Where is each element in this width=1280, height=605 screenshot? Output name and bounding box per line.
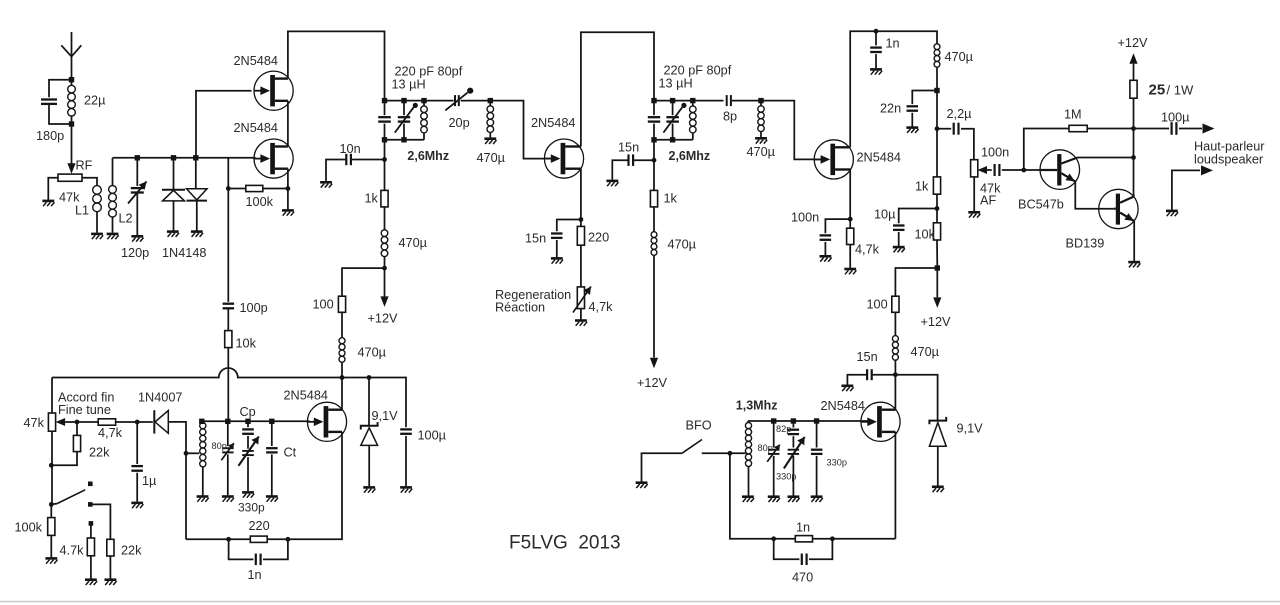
- resistor 1k stage3: [933, 177, 940, 194]
- label 220 stage2: [588, 231, 609, 245]
- svg-text:9,1V: 9,1V: [372, 409, 399, 423]
- trimmer 80p vfo: [221, 421, 234, 495]
- inductor BFO tank coil: [745, 421, 751, 496]
- svg-text:1n: 1n: [886, 37, 900, 51]
- label 1N4148: [162, 246, 206, 260]
- label 2,2u: [947, 107, 973, 121]
- wire Q9 source down: [894, 432, 896, 539]
- ground D2: [191, 232, 203, 237]
- label 15n stage2: [525, 232, 546, 246]
- wire bfo loop right: [813, 538, 896, 540]
- svg-text:+12V: +12V: [368, 312, 399, 326]
- svg-text:100n: 100n: [791, 211, 819, 225]
- svg-text:10n: 10n: [340, 142, 361, 156]
- wire Q7 collector join: [1133, 195, 1136, 197]
- capacitor 22n: [907, 91, 938, 127]
- wire antenna down to RF pot wiper: [71, 124, 73, 165]
- wire AF pot to ground: [973, 177, 975, 211]
- label 330p vfo: [238, 501, 265, 515]
- capacitor 100u output: [1134, 122, 1203, 135]
- node stage1 supply: [382, 266, 387, 271]
- label Ct: [284, 446, 297, 460]
- node BFO tap: [728, 451, 733, 456]
- svg-text:1k: 1k: [915, 180, 929, 194]
- node tank1 c: [421, 98, 426, 103]
- capacitor Ct: [266, 421, 278, 495]
- label +12V stage2: [637, 376, 668, 390]
- svg-text:20p: 20p: [449, 116, 470, 130]
- inductor 470u stage2 drain: [651, 232, 657, 358]
- svg-text:2,6Mhz: 2,6Mhz: [669, 149, 711, 163]
- resistor 22k a: [51, 422, 80, 465]
- wire 180p bottom: [49, 104, 72, 124]
- transistor Q3 2N5484: [544, 139, 583, 178]
- RF pot wiper arrow: [67, 163, 75, 174]
- label 100u vfo: [418, 429, 447, 443]
- label 220 pF 80pf t2: [664, 64, 732, 78]
- node vfo Cp: [245, 419, 250, 424]
- node tank1 b: [401, 98, 406, 103]
- wire BFO tank top: [748, 420, 872, 422]
- label 80p vfo: [212, 441, 227, 451]
- +12V arrow stage2: [650, 358, 658, 369]
- wire fine tune rail: [52, 368, 342, 378]
- ground 80p vfo: [222, 497, 234, 502]
- variable capacitor 120p: [128, 158, 147, 235]
- svg-text:1M: 1M: [1064, 108, 1082, 122]
- svg-text:Cp: Cp: [240, 405, 256, 419]
- node Q2 source 100k: [286, 186, 291, 191]
- svg-text:Réaction: Réaction: [495, 301, 545, 315]
- wire Q4 drain up to top rail: [850, 31, 937, 147]
- wire +12V to 25 resistor: [1133, 64, 1135, 81]
- svg-text:10k: 10k: [236, 337, 257, 351]
- wire supply column: [936, 91, 938, 177]
- label +12V stage1: [368, 312, 399, 326]
- capacitor tank1 fixed: [378, 101, 391, 140]
- wire +12V stub stage3: [936, 268, 938, 297]
- inductor 470u stage1 drain: [381, 230, 388, 268]
- wire gate bus: [113, 157, 256, 159]
- label 220 pF 80pf t1: [395, 65, 463, 79]
- label BFO: [686, 419, 712, 433]
- transistor Q9 2N5484 bfo: [861, 402, 900, 441]
- inductor L1: [93, 186, 102, 233]
- node choke3 top: [758, 98, 763, 103]
- label 22n: [880, 102, 901, 116]
- svg-text:470µ: 470µ: [399, 236, 428, 250]
- svg-text:AF: AF: [980, 194, 996, 208]
- label 13 uH t2: [659, 77, 693, 91]
- wire antenna to 180p branch: [49, 80, 72, 98]
- capacitor 330p bfo: [811, 421, 823, 496]
- wire vfo loop bottom: [186, 538, 250, 540]
- capacitor Cp series: [239, 421, 259, 491]
- antenna ANT1: [61, 32, 81, 80]
- label 470u choke3: [747, 145, 776, 159]
- svg-text:Fine tune: Fine tune: [58, 403, 111, 417]
- svg-text:47k: 47k: [24, 416, 45, 430]
- svg-text:100k: 100k: [246, 195, 274, 209]
- wire supply left to osc: [342, 268, 385, 296]
- label 10u: [874, 208, 896, 222]
- node vfo 80p: [225, 419, 230, 424]
- label 100k: [246, 195, 274, 209]
- label BD139: [1066, 237, 1105, 251]
- label 2,6Mhz t1: [407, 149, 449, 163]
- node bfo loop a: [771, 536, 776, 541]
- label 8p: [723, 110, 737, 124]
- transistor Q4 2N5484: [814, 140, 853, 179]
- node tank2 a: [651, 98, 656, 103]
- svg-text:10µ: 10µ: [874, 208, 896, 222]
- node vfo loop a: [226, 537, 231, 542]
- wire Q2 source down to ground: [287, 169, 289, 210]
- ground D1: [167, 232, 179, 237]
- capacitor 100p: [223, 302, 235, 331]
- svg-text:8p: 8p: [723, 110, 737, 124]
- svg-text:2N5484: 2N5484: [234, 121, 278, 135]
- label 470u choke2: [477, 151, 506, 165]
- svg-text:15n: 15n: [525, 232, 546, 246]
- wire Q1 drain up/right to tank1: [288, 31, 385, 100]
- transistor Q7 BD139: [1099, 189, 1138, 228]
- ground 100u vfo: [400, 487, 412, 492]
- svg-text:1n: 1n: [248, 568, 262, 582]
- svg-text:330p: 330p: [776, 472, 796, 482]
- svg-text:Haut-parleur: Haut-parleur: [1194, 140, 1265, 154]
- wire Q8 drain up: [341, 378, 343, 410]
- svg-text:13 µH: 13 µH: [392, 78, 426, 92]
- node vfo Ct: [269, 419, 274, 424]
- svg-text:2,6Mhz: 2,6Mhz: [407, 149, 449, 163]
- capacitor 15n bfo: [847, 369, 895, 385]
- svg-text:2N5484: 2N5484: [531, 116, 575, 130]
- node bus D2: [193, 155, 198, 160]
- label 470u choke4: [945, 50, 974, 64]
- transistor Q6 BC547b: [1040, 150, 1080, 190]
- label Cp: [240, 405, 256, 419]
- trimmer 80p bfo: [767, 421, 780, 496]
- node 1n tap: [874, 29, 879, 34]
- resistor 4,7k fine tune: [77, 419, 137, 425]
- node tank2 e: [670, 137, 675, 142]
- node zener1 tap: [367, 375, 372, 380]
- node tank2 15n tap: [652, 158, 657, 163]
- resistor 10k vfo: [225, 331, 232, 422]
- node base junction: [1021, 168, 1026, 173]
- svg-text:10k: 10k: [915, 228, 936, 242]
- ground Cp: [242, 492, 254, 497]
- svg-text:4,7k: 4,7k: [855, 243, 880, 257]
- svg-text:100k: 100k: [15, 521, 43, 535]
- wire tank2 bottom line: [654, 139, 693, 141]
- node bfo 82p: [791, 418, 796, 423]
- svg-text:1µ: 1µ: [142, 474, 157, 488]
- resistor 220 stage2: [577, 220, 584, 287]
- svg-text:BC547b: BC547b: [1018, 198, 1064, 212]
- svg-text:1n: 1n: [796, 521, 810, 535]
- wire vfo loop bottom right: [267, 432, 342, 539]
- node vfo coil top: [199, 419, 204, 424]
- svg-text:2N5484: 2N5484: [821, 399, 865, 413]
- label 4.7k: [60, 544, 85, 558]
- ground RF pot: [42, 201, 54, 206]
- speaker return arrow: [1172, 165, 1213, 209]
- wire 1M left leg: [1024, 129, 1069, 171]
- svg-text:15n: 15n: [857, 350, 878, 364]
- svg-text:80p: 80p: [758, 443, 773, 453]
- ground 82p bfo: [788, 497, 800, 502]
- label 47k fine tune: [24, 416, 45, 430]
- ground AF pot: [968, 212, 980, 217]
- svg-text:1N4007: 1N4007: [138, 391, 182, 405]
- svg-text:22µ: 22µ: [84, 94, 106, 108]
- node main collector: [1131, 155, 1136, 160]
- wire Q1 source to Q2 drain: [287, 101, 289, 147]
- ground 22k b: [105, 580, 117, 585]
- label L2: [119, 212, 133, 226]
- wire Q6 collector to main: [1078, 157, 1134, 159]
- resistor 25 1W: [1130, 80, 1137, 98]
- svg-text:180p: 180p: [36, 129, 64, 143]
- resistor 100k: [228, 185, 288, 191]
- ground BFO coil: [742, 497, 754, 502]
- switch contact low: [89, 521, 94, 526]
- node bus D1: [171, 155, 176, 160]
- svg-text:100: 100: [313, 298, 334, 312]
- capacitor 10u: [893, 209, 937, 247]
- label 470u bfo: [911, 345, 940, 359]
- resistor 1M: [1069, 125, 1087, 131]
- node bfo 330p: [814, 418, 819, 423]
- label 9,1V vfo: [372, 409, 399, 423]
- svg-text:L2: L2: [119, 212, 133, 226]
- capacitor 1u: [131, 422, 143, 502]
- ground 22n: [906, 128, 918, 133]
- node tank2 b: [670, 98, 675, 103]
- +12V arrow stage1: [380, 296, 388, 307]
- label RF: [76, 159, 93, 173]
- label 20p: [449, 116, 470, 130]
- label Fine tune: [58, 403, 111, 417]
- svg-text:470µ: 470µ: [477, 151, 506, 165]
- node 2,2u tap: [935, 126, 940, 131]
- svg-text:BFO: BFO: [686, 419, 712, 433]
- label 9,1V bfo: [957, 422, 984, 436]
- diode 1N4007: [137, 410, 186, 453]
- label 4,7k regen: [589, 300, 614, 314]
- inductor 470u choke4: [934, 44, 940, 91]
- label Q4 2N5484: [857, 151, 901, 165]
- inductor 470u choke2: [487, 101, 494, 138]
- label L1: [75, 204, 89, 218]
- svg-text:100: 100: [867, 298, 888, 312]
- svg-text:25: 25: [1149, 82, 1166, 99]
- capacitor 82p+330p bfo: [784, 421, 805, 496]
- svg-text:22k: 22k: [89, 446, 110, 460]
- capacitor 470 bfo: [774, 539, 833, 565]
- svg-text:220 pF 80pf: 220 pF 80pf: [395, 65, 463, 79]
- switch contact up: [88, 482, 93, 487]
- ground 100k fine: [45, 558, 57, 563]
- ground zener2: [932, 487, 944, 492]
- resistor 100 vfo: [338, 296, 345, 312]
- wire 10k to supply node: [936, 240, 938, 268]
- +12V arrow stage3: [933, 297, 941, 308]
- svg-text:220: 220: [588, 231, 609, 245]
- svg-text:BD139: BD139: [1066, 237, 1105, 251]
- resistor 1n bfo: [795, 536, 812, 542]
- node antenna top: [69, 77, 74, 82]
- svg-text:1k: 1k: [365, 192, 379, 206]
- node vfo supply: [340, 375, 345, 380]
- switch contact mid: [88, 502, 93, 507]
- svg-text:13 µH: 13 µH: [659, 77, 693, 91]
- svg-text:470µ: 470µ: [911, 345, 940, 359]
- label Q2 2N5484: [234, 121, 278, 135]
- zener 9,1V bfo: [929, 417, 946, 486]
- wire vfo loop left: [185, 453, 187, 539]
- svg-text:4.7k: 4.7k: [60, 544, 85, 558]
- label 1u: [142, 474, 157, 488]
- ground 15n stage2: [551, 258, 563, 263]
- label 15n bfo: [857, 350, 878, 364]
- node tank1 e: [401, 137, 406, 142]
- svg-text:330p: 330p: [238, 501, 265, 515]
- resistor 22k b: [90, 504, 114, 578]
- wire tank1 top line: [385, 100, 454, 102]
- wire RF pot left to ground: [48, 178, 58, 200]
- label Haut-parleur: [1194, 140, 1265, 154]
- svg-text:4,7k: 4,7k: [98, 426, 123, 440]
- resistor 100 bfo: [892, 296, 899, 312]
- ground 15n bfo: [842, 386, 854, 391]
- node Q3 source: [579, 217, 584, 222]
- potentiometer regeneration 4,7k: [573, 287, 591, 320]
- svg-text:RF: RF: [76, 159, 93, 173]
- svg-text:L1: L1: [75, 204, 89, 218]
- svg-text:80p: 80p: [212, 441, 227, 451]
- variable capacitor tank2: [663, 101, 686, 140]
- label Reaction: [495, 301, 545, 315]
- ground Q7 emitter: [1128, 262, 1140, 267]
- svg-text:Ct: Ct: [284, 446, 297, 460]
- wire BFO tap to coil: [730, 452, 746, 454]
- node vfo loop b: [286, 537, 291, 542]
- label 180p: [36, 129, 64, 143]
- svg-text:470µ: 470µ: [747, 145, 776, 159]
- wire D2 node up to Q1 gate: [196, 91, 252, 158]
- node tank2 d: [651, 137, 656, 142]
- svg-text:330p: 330p: [827, 458, 847, 468]
- wire supply to BFO column: [895, 268, 937, 296]
- ground regen pot: [575, 321, 587, 326]
- label 82p: [776, 424, 791, 434]
- potentiometer RF 47k: [58, 174, 82, 181]
- wire supply to zener2: [895, 375, 937, 421]
- label 220 vfo: [249, 519, 270, 533]
- svg-text:/ 1W: / 1W: [1167, 83, 1194, 98]
- label 10k vfo: [236, 337, 257, 351]
- label AF: [980, 194, 996, 208]
- node antenna bottom: [69, 121, 74, 126]
- node stage3 supply: [935, 265, 940, 270]
- inductor 22u: [68, 80, 76, 124]
- label 330p bfo: [827, 458, 847, 468]
- output arrow: [1203, 124, 1215, 134]
- svg-text:100p: 100p: [240, 301, 268, 315]
- node bus 120p: [135, 155, 140, 160]
- label 120p: [121, 246, 149, 260]
- inductor L2: [109, 158, 117, 233]
- transistor Q1 2N5484: [254, 71, 293, 110]
- ground 10u: [893, 247, 905, 252]
- label +12V main: [1118, 36, 1149, 50]
- node tank1 a: [382, 98, 387, 103]
- label 470u stage2: [668, 238, 697, 252]
- label 1M: [1064, 108, 1082, 122]
- svg-text:1,3Mhz: 1,3Mhz: [736, 399, 778, 413]
- capacitor 8p: [727, 95, 761, 106]
- label 100n stage3: [791, 211, 819, 225]
- node bfo loop b: [830, 536, 835, 541]
- svg-text:F5LVG 2013: F5LVG 2013: [509, 533, 621, 554]
- node tank1 10n tap: [382, 157, 387, 162]
- label F5LVG 2013: [509, 533, 621, 554]
- inductor 470u vfo: [339, 312, 345, 377]
- label 100 bfo: [867, 298, 888, 312]
- label 470u vfo: [358, 346, 387, 360]
- transistor Q8 2N5484 vfo: [307, 402, 346, 441]
- resistor 100k fine: [48, 504, 55, 557]
- node 22k join: [49, 463, 54, 468]
- node Q4 source: [848, 217, 853, 222]
- switch SW2 BFO: [642, 440, 730, 482]
- label 100k fine: [15, 521, 43, 535]
- label BC547b: [1018, 198, 1064, 212]
- node wiper: [75, 420, 80, 425]
- label 15n tank2: [618, 141, 639, 155]
- svg-text:4,7k: 4,7k: [589, 300, 614, 314]
- node 10u tap: [935, 206, 940, 211]
- transistor Q2 2N5484: [254, 139, 293, 178]
- label 1k stage3: [915, 180, 929, 194]
- label Accord fin: [58, 391, 114, 405]
- capacitor 100n stage3: [820, 219, 851, 255]
- wire fine tune pot drop: [51, 378, 53, 414]
- ground Q2 source: [282, 210, 294, 215]
- wire 1k3 to 10k: [936, 194, 938, 223]
- label 4,7k stage3: [855, 243, 880, 257]
- ground BFO switch: [636, 483, 648, 488]
- wire 1k2 to choke: [653, 207, 655, 232]
- wire 20p to choke node: [461, 100, 491, 102]
- wire +12V stub stage1: [384, 268, 386, 296]
- label 1N4007: [138, 391, 182, 405]
- svg-text:2N5484: 2N5484: [234, 54, 278, 68]
- svg-text:15n: 15n: [618, 141, 639, 155]
- wire 1k to choke: [384, 207, 386, 230]
- ground L1: [91, 234, 103, 239]
- svg-text:100µ: 100µ: [418, 429, 447, 443]
- inductor tank2 13uH: [690, 101, 697, 140]
- +12V arrow main: [1129, 53, 1137, 64]
- label 470u stage1: [399, 236, 428, 250]
- node supply4: [934, 88, 939, 93]
- label 80p bfo: [758, 443, 773, 453]
- label 22k b: [121, 544, 142, 558]
